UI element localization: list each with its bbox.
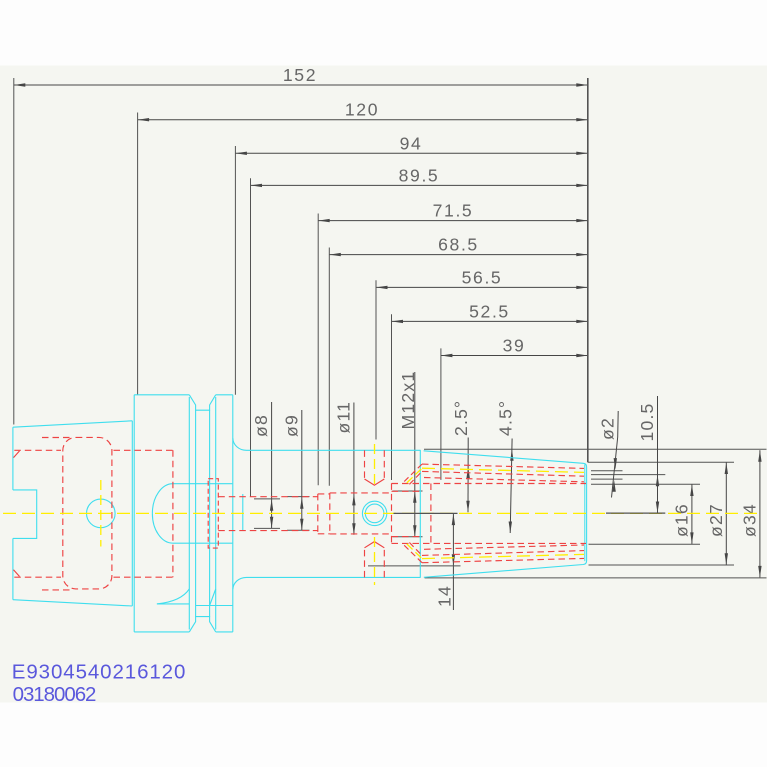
svg-text:M12x1: M12x1 [398,371,418,430]
tube bullet top [173,483,233,485]
ext 56.5 [375,280,377,439]
shank left face lower [12,538,14,599]
shank taper bottom edge [13,600,132,606]
tube bullet arc [152,484,173,544]
phi11 step [329,493,331,534]
dimension 39 [441,336,588,358]
dimension phi27 [706,463,728,565]
dimension 71.5 [318,201,588,223]
collet taper centerline bottom [422,554,584,558]
phi8 bore top [218,496,317,498]
drive slot ramp arc [157,589,189,604]
nose outline [424,451,587,578]
svg-text:94: 94 [400,133,423,153]
dimension 52.5 [392,301,588,323]
thread chamfer tick bottom [14,570,21,577]
svg-text:39: 39 [503,336,526,356]
flange right face [232,395,234,632]
funnel centerline top [407,468,422,483]
cross hole top walls [365,450,385,485]
dimension 89.5 [251,165,588,187]
flange bottom edge left [134,631,189,633]
dimension 94 [235,133,587,155]
thread minor line top [14,449,61,451]
phi16 pocket wall [430,484,432,544]
ext 120 [137,113,139,395]
svg-text:ø16: ø16 [672,503,692,537]
svg-text:52.5: 52.5 [469,301,510,321]
cross hole circle outer [362,501,386,525]
svg-text:89.5: 89.5 [399,165,440,185]
funnel slant 1 bottom [404,545,422,562]
thread minor line bottom right [114,576,173,578]
collet line c top [424,478,584,482]
ext 39 [440,348,442,480]
cross hole centerline bottom [374,537,376,585]
ext line phi34 bottom [425,577,767,579]
phi9 bore bottom [318,533,330,535]
svg-text:56.5: 56.5 [462,267,503,287]
flange v-groove bottom [189,617,215,632]
funnel centerline bottom [407,544,422,559]
svg-text:ø2: ø2 [598,417,618,440]
funnel slant 2 top [409,471,422,484]
bore edge in neck [242,494,244,531]
flange top edge right [216,394,233,396]
drive slot floor [157,603,189,605]
svg-text:14: 14 [435,585,455,607]
drive slot right slant [210,589,216,606]
nose tip inner line [584,465,586,562]
phi16 pocket bottom [392,542,587,544]
ext line 14 top on centerline [394,512,458,514]
thread chamfer tick top [14,450,21,457]
ext line phi27 top [588,461,734,463]
svg-text:2.5°: 2.5° [451,400,471,436]
flange bottom edge right [216,631,233,633]
ext 94 [234,146,236,395]
phi8 bore bottom [218,530,317,532]
collet line c bottom [424,545,584,549]
ext line phi34 top [424,448,767,450]
collet line b bottom [422,551,584,556]
ext line phi16 bottom [589,543,701,545]
bore end wall [172,450,174,577]
ext right common [587,78,589,462]
collet outer taper bottom [422,558,584,562]
m12 thread bottom [392,536,423,538]
thread major line bottom [42,589,72,591]
svg-text:120: 120 [345,100,379,120]
flange groove silhouette line 1 [188,397,190,630]
collet outer taper top [422,464,584,468]
dimension phi9 [282,410,310,530]
svg-text:4.5°: 4.5° [496,400,516,436]
collet line b top [422,471,584,476]
cross hole bottom walls [365,542,385,578]
neck fillet bottom [233,577,247,589]
m12 thread top [392,490,423,492]
flange v-groove top [189,395,215,410]
svg-text:71.5: 71.5 [433,201,474,221]
tube collar rect [208,479,218,548]
ext tick collet line c [591,478,623,480]
main centerline [3,512,757,514]
body top edge [247,449,421,451]
dimension 56.5 [376,267,588,289]
collet taper centerline top [422,468,584,472]
ext 52.5 [391,314,393,480]
ext line 10.5 bottom on centerline [606,512,665,514]
ext 68.5 [328,248,330,486]
dimension phi34 [739,450,761,577]
dimension 2.5 degree [451,400,471,513]
phi9 bore top [318,493,330,495]
tube bullet bottom [173,542,233,544]
ext line 10.5 top [591,474,665,476]
dimension phi2 [598,411,619,498]
thread minor line top right [114,449,173,451]
thread major line top [42,437,72,439]
cross hole circle inner [365,504,384,523]
dimension 120 [138,100,588,122]
tube hole circle [87,499,116,528]
m12 face wall [391,483,393,543]
flange groove silhouette line 3 [209,410,211,616]
svg-text:03180062: 03180062 [13,683,96,706]
svg-text:ø8: ø8 [251,414,271,437]
ext 152 left [13,78,15,425]
thread relief rounded rect [63,437,112,589]
phi11 bore bottom [330,533,392,535]
ext line phi27 bottom [589,564,735,566]
dimension phi8 [251,402,280,528]
funnel slant 1 top [404,464,422,481]
svg-text:10.5: 10.5 [637,402,657,441]
svg-text:68.5: 68.5 [438,235,479,255]
shank left face upper [12,427,14,490]
svg-text:ø9: ø9 [282,414,302,437]
ext 89.5 [250,178,252,497]
dimension phi11 [334,401,356,535]
phi9 step [317,494,319,534]
shank taper top edge [13,421,132,427]
dimension 4.5 degree [496,400,516,533]
flange top edge left [134,394,189,396]
body bottom edge [247,576,421,578]
flange left face [133,395,135,632]
dimension 68.5 [329,235,588,257]
thread minor line bottom [14,576,61,578]
dimension 10.5 [637,396,659,513]
neck fillet top [233,438,247,450]
ext line phi16 top [591,483,700,485]
phi11 bore top [330,492,392,494]
drive slot right floor [196,605,233,607]
dimension 14 [368,514,461,610]
flange groove silhouette line 4 [215,397,217,630]
dimension M12x1 [393,371,423,537]
cross hole centerline top [374,444,376,489]
shank end face [131,421,133,606]
svg-text:152: 152 [283,65,317,85]
dimension 152 [14,65,588,87]
tube hole centerline [100,480,102,547]
ext tick collet line a [591,470,623,472]
dimension phi16 [672,485,694,544]
flange groove silhouette line 2 [195,410,197,616]
svg-text:ø27: ø27 [706,503,726,537]
shank face notch [13,490,37,539]
ext 71.5 [317,214,319,486]
funnel slant 2 bottom [409,543,422,556]
svg-text:ø11: ø11 [334,401,354,434]
phi16 pocket top [392,483,587,485]
svg-text:E9304540216120: E9304540216120 [12,660,187,683]
svg-text:ø34: ø34 [739,503,759,537]
nose left face [419,450,421,578]
